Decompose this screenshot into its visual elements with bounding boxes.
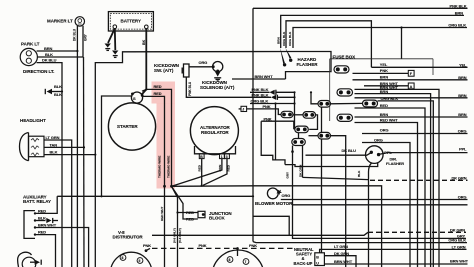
wire BRN: [353, 79, 468, 81]
wire C6 right to long vertical: [330, 136, 346, 267]
wire DK GRN from C4: [302, 146, 304, 178]
wire ORG BLK top: [293, 28, 467, 49]
terminal 1 alternator: [220, 154, 225, 159]
svg-text:BRN: BRN: [380, 75, 389, 80]
wire PNK BLK mid with connector: [250, 91, 270, 93]
svg-text:BLOWER MOTOR: BLOWER MOTOR: [255, 201, 293, 206]
wire ORG BLK mid: [250, 103, 295, 105]
fuse box outline: [330, 54, 433, 121]
svg-text:BACK-UP: BACK-UP: [294, 261, 313, 266]
svg-text:RED: RED: [198, 164, 202, 171]
ground G2: [112, 51, 118, 58]
svg-text:PNK: PNK: [249, 243, 257, 248]
svg-text:BRN WHT: BRN WHT: [450, 259, 469, 264]
fuse FB2: [337, 89, 353, 96]
svg-text:BRN: BRN: [458, 93, 467, 98]
svg-text:BLK: BLK: [38, 216, 46, 221]
wire BRN to corner: [355, 94, 431, 267]
connector F: [408, 70, 414, 76]
svg-text:BRN: BRN: [380, 112, 389, 117]
svg-text:DISTRIBUTOR: DISTRIBUTOR: [113, 235, 144, 240]
fuse C6: [318, 132, 331, 139]
wire BK battery positive down to starter terminal: [141, 29, 146, 95]
svg-text:BRN: BRN: [458, 112, 467, 117]
svg-text:GRY: GRY: [84, 33, 88, 41]
svg-text:DK BLU: DK BLU: [73, 28, 77, 41]
wire BRN mid: [355, 116, 468, 118]
fuse C5: [318, 101, 331, 108]
starter solenoid terminal: [131, 92, 144, 103]
svg-text:8: 8: [122, 256, 124, 260]
wire PNK from J to fuse C1: [247, 109, 281, 115]
wire bus y235: [152, 232, 368, 235]
svg-text:PNK BLU: PNK BLU: [188, 81, 192, 96]
svg-text:BLOCK: BLOCK: [209, 216, 226, 221]
wire fuse C5 to C6 link: [321, 107, 323, 132]
svg-text:RED: RED: [186, 210, 194, 215]
svg-text:BLK: BLK: [54, 84, 62, 89]
kickdown switch S2: [154, 63, 189, 77]
staircase wire from PNK feed: [261, 121, 285, 164]
wire PPL: [379, 153, 468, 155]
svg-text:5: 5: [139, 259, 141, 263]
svg-text:DK GRN: DK GRN: [450, 227, 465, 232]
svg-text:DK GRN: DK GRN: [299, 164, 303, 177]
6-cyl distributor: [212, 250, 264, 267]
svg-text:LT GRN: LT GRN: [46, 135, 60, 140]
svg-text:BRN WHT: BRN WHT: [334, 259, 353, 264]
wire marker/park BLK down: [83, 57, 86, 267]
highlighter pink trace over thermo wires: [152, 82, 176, 189]
wire PNK BLK mid 2 with connector: [271, 95, 295, 100]
wire to C5 from PNK BLK bus: [311, 92, 318, 104]
svg-text:LT GRN: LT GRN: [452, 244, 466, 249]
wire V8-only lead 2: [172, 186, 198, 219]
svg-text:RED WHT: RED WHT: [380, 118, 398, 123]
svg-text:ORG: ORG: [374, 138, 383, 143]
wire DK GRN from switch: [324, 256, 356, 267]
battery B1: [108, 12, 153, 31]
fuse C1: [281, 111, 293, 117]
svg-text:BRN WHT: BRN WHT: [38, 223, 57, 228]
wire BLK headlight: [44, 154, 95, 156]
wire ORG BLK bottom bus: [253, 242, 467, 243]
wire ORG: [362, 133, 468, 135]
fuse FB1: [334, 66, 349, 73]
svg-text:PNK: PNK: [264, 117, 272, 122]
ground kickdown solenoid: [214, 72, 221, 81]
svg-text:BRN: BRN: [455, 10, 464, 15]
svg-text:HEADLIGHT: HEADLIGHT: [20, 118, 46, 123]
hazard flasher pin 1: [280, 48, 285, 64]
wire C2 to C3: [309, 115, 317, 129]
svg-text:ORG: ORG: [380, 128, 389, 133]
wire step to flasher ground: [285, 163, 378, 167]
wire dir flasher ground lead: [369, 163, 372, 267]
fog lamp bottom left: [18, 252, 36, 267]
node PNK tap: [236, 247, 239, 250]
wire TAN headlight: [44, 146, 84, 148]
svg-text:BRN: BRN: [277, 37, 281, 44]
wire GRY from C4: [292, 146, 294, 152]
wire BRN park light: [37, 50, 78, 52]
svg-text:DK BLU: DK BLU: [342, 148, 357, 153]
svg-text:ORG BLK: ORG BLK: [381, 96, 399, 101]
wire junction to DK GRN dashed: [253, 216, 289, 235]
svg-text:YEL: YEL: [380, 62, 388, 67]
svg-text:SOLENOID (A/T): SOLENOID (A/T): [200, 85, 235, 90]
blower motor MOT2: [255, 188, 293, 206]
svg-text:ORG BLK: ORG BLK: [282, 31, 286, 46]
node junction thermo R: [170, 185, 173, 188]
wire PNK to connector F: [353, 72, 409, 74]
node fuse feed bus: [294, 92, 296, 129]
connector A: [408, 83, 414, 89]
svg-text:PNK: PNK: [199, 243, 207, 248]
svg-text:RED: RED: [38, 208, 46, 213]
wire RED aux relay to starter feed: [35, 196, 57, 213]
fuse C4: [292, 139, 306, 146]
wire RED thermo 1: [142, 89, 172, 186]
wire marker lt lead 1: [76, 26, 78, 267]
wire V8-only lead 1: [172, 186, 178, 267]
wire PNK lower to fuse C3: [261, 121, 294, 129]
svg-text:RED: RED: [227, 164, 231, 171]
wire C5 to FB3: [330, 102, 363, 104]
svg-text:BK: BK: [142, 39, 146, 45]
svg-text:U: U: [316, 261, 319, 265]
fuse FB3: [363, 100, 378, 107]
svg-text:ORG: ORG: [199, 60, 208, 65]
wire DK GRN dashed upper: [370, 179, 468, 181]
svg-text:FLASHER: FLASHER: [386, 161, 404, 166]
svg-text:S: S: [133, 96, 136, 101]
svg-text:DK BLU: DK BLU: [42, 57, 57, 62]
wire BRN from 1 terminal: [173, 159, 222, 186]
fuse FB4: [337, 114, 353, 121]
wire junction R to alternator B: [172, 186, 382, 267]
svg-text:PPL: PPL: [459, 146, 467, 151]
wire to distributor 2: [237, 248, 239, 256]
node junction thermo L: [163, 185, 166, 188]
neutral safety & back-up switch: [294, 247, 325, 266]
svg-text:BRN: BRN: [380, 89, 389, 94]
wire DK BLU to dir flasher: [306, 153, 372, 156]
svg-text:ORG BLK: ORG BLK: [448, 238, 466, 243]
wire LT GRN headlight: [44, 140, 72, 267]
svg-text:J: J: [242, 108, 244, 112]
svg-text:7: 7: [245, 260, 247, 264]
svg-text:A: A: [410, 85, 413, 89]
svg-text:BLK: BLK: [54, 92, 62, 97]
wire C3 to C4: [298, 133, 300, 139]
svg-text:PNK: PNK: [143, 243, 151, 248]
wire BRN WHT 2: [355, 89, 440, 267]
junction block JB: [176, 210, 231, 222]
wire drop from ORG BLK line to staircase: [275, 104, 277, 160]
dir flasher FL1: [366, 146, 405, 166]
svg-text:DIRECTION LT.: DIRECTION LT.: [23, 69, 54, 74]
svg-text:THERMO WIRE: THERMO WIRE: [166, 156, 170, 178]
svg-text:8: 8: [229, 258, 231, 262]
wire drop to fuse box: [401, 28, 403, 59]
wire C1 to C2: [293, 114, 303, 116]
wire BRN WHT aux relay: [35, 228, 89, 267]
svg-text:PNK BLK: PNK BLK: [252, 92, 269, 97]
svg-text:RED WHT: RED WHT: [160, 206, 164, 221]
wire RED from B terminal: [201, 159, 203, 186]
svg-text:ORG: ORG: [458, 195, 467, 200]
svg-text:DK GRN: DK GRN: [334, 251, 349, 256]
svg-text:BRN: BRN: [458, 75, 467, 80]
svg-text:BATTERY: BATTERY: [121, 18, 141, 23]
wire DK BLU park light: [37, 63, 62, 267]
wire C6 left stub: [309, 135, 319, 137]
svg-text:RED: RED: [38, 230, 46, 235]
wire marker lt lead 2: [82, 26, 84, 57]
svg-text:BLK: BLK: [50, 150, 58, 155]
wire BRN WHT to connector A: [364, 85, 408, 87]
wire DK GRN dashed lower: [368, 231, 466, 233]
wire RED thermo 2: [143, 96, 165, 267]
svg-text:BRN WHT: BRN WHT: [255, 74, 274, 79]
wire PNK BLK top: [253, 7, 468, 9]
svg-text:STARTER: STARTER: [117, 124, 138, 129]
wire lower bus: [293, 204, 468, 206]
wire PNK BLU kickdown switch down: [186, 77, 271, 97]
svg-text:GRY: GRY: [286, 171, 290, 179]
svg-text:PNK: PNK: [263, 104, 271, 109]
wire feed bus to staircase: [57, 195, 253, 197]
hazard flasher FL2 box: [286, 52, 332, 80]
wire battery neg to grounds: [108, 28, 115, 43]
wire starter terminal to left bus: [102, 96, 132, 196]
svg-text:BATT. RELAY: BATT. RELAY: [23, 199, 51, 204]
svg-text:3: 3: [226, 155, 228, 159]
wire ORG 2: [362, 143, 410, 267]
svg-text:LT GRN: LT GRN: [334, 244, 348, 249]
svg-text:FLASHER: FLASHER: [297, 62, 319, 67]
svg-text:RED: RED: [380, 103, 388, 108]
connector arrow fog lamp: [30, 260, 41, 265]
svg-text:BRN: BRN: [218, 164, 222, 171]
svg-text:ORG: ORG: [282, 193, 291, 198]
V-8 distributor: [110, 230, 152, 267]
wire BRN top: [281, 15, 464, 48]
wire BLK aux relay w/ connector: [35, 220, 46, 222]
wire RED from 3 terminal: [203, 159, 227, 186]
wire battery neg to ground 2: [114, 28, 117, 50]
hazard flasher pin 2: [285, 48, 291, 59]
wire ORG from blower motor: [281, 199, 468, 201]
wire ORG kickdown: [189, 66, 213, 68]
fuse C3: [295, 126, 309, 133]
wire YEL feed top: [286, 21, 371, 68]
park light P1: [20, 42, 40, 66]
svg-text:ORG: ORG: [458, 129, 467, 134]
svg-text:PNK BLK: PNK BLK: [450, 3, 467, 8]
wire BRN WHT bottom: [324, 263, 467, 265]
svg-text:DK GRN: DK GRN: [451, 175, 466, 180]
svg-text:MARKER LT: MARKER LT: [47, 19, 73, 24]
wire BLK park light: [37, 56, 83, 58]
svg-text:ORG BLK: ORG BLK: [251, 98, 269, 103]
svg-text:YEL: YEL: [459, 62, 467, 67]
svg-text:TAN: TAN: [50, 142, 58, 147]
svg-text:1: 1: [221, 155, 223, 159]
kickdown solenoid L1: [212, 62, 223, 73]
wire C6 down to back-up switch: [321, 139, 323, 253]
ground G1: [105, 44, 111, 51]
svg-text:PARK LT: PARK LT: [21, 42, 40, 47]
svg-text:BRN: BRN: [44, 46, 53, 51]
svg-text:B: B: [316, 255, 319, 259]
wire YEL: [371, 66, 467, 68]
wire BRN WHT to flasher box: [232, 78, 286, 80]
svg-text:RED: RED: [154, 84, 162, 89]
wire ORG BLK from FB3: [378, 101, 434, 267]
wire PNK dashed distributor feed: [152, 247, 294, 249]
svg-text:RED: RED: [186, 216, 194, 221]
svg-text:REGULATOR: REGULATOR: [201, 130, 229, 135]
terminal B alternator: [199, 154, 204, 159]
svg-text:BLK: BLK: [45, 52, 53, 57]
auxiliary battery relay K1: [23, 194, 51, 238]
headlight H1: [20, 118, 47, 161]
starter MOT1: [108, 103, 155, 150]
connector arrow direction lt: [45, 84, 63, 97]
svg-text:SW. (A/T): SW. (A/T): [154, 68, 174, 73]
svg-text:ORG BLK: ORG BLK: [448, 23, 466, 28]
marker light M1: [47, 17, 85, 26]
svg-text:PNK: PNK: [380, 68, 388, 73]
wire RED WHT: [355, 123, 418, 267]
svg-text:ORG BLK: ORG BLK: [288, 31, 292, 46]
wire LT GRN from switch: [320, 249, 467, 252]
wire RED aux relay bottom to fog lamp: [35, 235, 56, 267]
wire hazard feed Z-step around battery: [95, 52, 293, 267]
wire RED: [355, 108, 426, 267]
svg-text:BLK: BLK: [357, 170, 361, 177]
svg-text:RED: RED: [154, 91, 162, 96]
terminal 3 alternator: [225, 154, 230, 159]
wire BRN long: [355, 97, 468, 99]
connector J: [239, 106, 247, 111]
alternator regulator U1: [190, 107, 238, 155]
svg-text:THERMO WIRE: THERMO WIRE: [157, 156, 161, 178]
fuse C2: [303, 112, 316, 119]
wire trunk x253 down: [252, 8, 254, 241]
